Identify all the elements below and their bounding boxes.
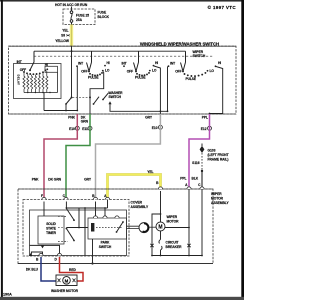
svg-text:RED: RED	[69, 268, 76, 272]
wire: fuse output (yellow)	[70, 25, 73, 47]
wiper motor assembly dashed box	[18, 189, 213, 264]
cam / gear linkage	[127, 223, 157, 233]
fuse block dashed box	[63, 9, 95, 25]
timer internal wires	[43, 202, 45, 217]
svg-text:DK GRN: DK GRN	[48, 178, 61, 182]
washer motor	[51, 275, 79, 293]
svg-text:YEL: YEL	[62, 29, 68, 33]
svg-text:GRY: GRY	[145, 116, 153, 120]
wire PPL run	[189, 114, 210, 187]
wire RED run	[60, 257, 84, 281]
svg-text:WINDSHIELD WIPER/WASHER SWITCH: WINDSHIELD WIPER/WASHER SWITCH	[140, 41, 219, 46]
svg-text:LO: LO	[210, 69, 215, 73]
resistors	[23, 71, 48, 93]
svg-text:G103: G103	[208, 149, 216, 153]
SW3 wiper mode switch	[122, 51, 159, 79]
circuit breaker	[159, 231, 182, 256]
page frame	[1, 0, 3, 298]
ground rail on assembly bottom	[18, 263, 213, 265]
wiper motor	[156, 215, 179, 231]
svg-text:PNK: PNK	[32, 178, 39, 182]
svg-text:YELLOW: YELLOW	[55, 39, 70, 43]
contact x mark	[187, 244, 190, 247]
SW2 wiper mode switch	[76, 51, 110, 79]
SW4 wiper mode switch	[168, 51, 222, 81]
svg-text:LO: LO	[152, 69, 157, 73]
svg-text:OFF: OFF	[175, 70, 181, 74]
wire: washer out arrow to other circuit	[110, 104, 168, 112]
fuse F25 symbol	[70, 9, 73, 25]
svg-text:SWITCH: SWITCH	[99, 245, 112, 249]
svg-text:TIMER: TIMER	[46, 231, 56, 235]
contact arc dots	[23, 69, 46, 75]
svg-text:GRY: GRY	[84, 178, 92, 182]
svg-text:WIPER: WIPER	[167, 215, 178, 219]
svg-text:ASSEMBLY: ASSEMBLY	[131, 205, 149, 209]
svg-text:WASHER MOTOR: WASHER MOTOR	[51, 289, 79, 293]
svg-text:SOLID: SOLID	[46, 222, 56, 226]
svg-text:LO: LO	[105, 69, 110, 73]
svg-text:PPL: PPL	[202, 116, 208, 120]
wire GRY run	[96, 114, 161, 197]
contact x mark	[150, 244, 153, 247]
svg-text:CIRCUIT: CIRCUIT	[166, 241, 179, 245]
windshield wiper/washer switch dashed box	[9, 46, 237, 114]
wire to park switch	[66, 208, 88, 228]
timer relay contact lower	[66, 228, 68, 230]
wire: motor A branch	[165, 189, 189, 256]
wire: feed stub into fuse block	[71, 7, 73, 10]
svg-text:INT: INT	[78, 61, 83, 65]
timer output wires with arrows	[30, 245, 60, 253]
washer switch contacts	[65, 91, 123, 111]
park switch box	[88, 218, 127, 239]
svg-text:MOTOR: MOTOR	[167, 220, 180, 224]
svg-text:FUSE 25: FUSE 25	[76, 13, 89, 17]
svg-text:INT: INT	[17, 60, 22, 64]
wire: motor bottom rail	[152, 255, 202, 257]
wire: HI4 contact to PPL exit	[210, 67, 223, 114]
rail corner junction dots	[151, 255, 153, 257]
svg-text:FRAME RAIL): FRAME RAIL)	[208, 158, 229, 162]
svg-text:E10: E10	[69, 127, 75, 131]
svg-text:COVER: COVER	[131, 201, 143, 205]
wire DK BLU run	[41, 257, 56, 281]
wire: feed into switch	[71, 46, 73, 97]
contact link dashed stubs from timer	[58, 216, 68, 241]
svg-text:25A: 25A	[76, 18, 83, 22]
svg-text:WASHER: WASHER	[109, 91, 124, 95]
svg-text:ASSEMBLY: ASSEMBLY	[211, 201, 229, 205]
park switch output	[92, 239, 94, 264]
svg-text:BLK: BLK	[192, 177, 199, 181]
svg-text:PNK: PNK	[68, 116, 75, 120]
svg-text:YEL: YEL	[147, 170, 153, 174]
svg-text:HI: HI	[218, 61, 221, 65]
svg-text:BREAKER: BREAKER	[166, 245, 183, 249]
svg-text:HI: HI	[107, 61, 110, 65]
wire: switch gang dashed link	[34, 55, 214, 57]
wire: INT2 contact to PNK exit	[76, 67, 78, 111]
svg-text:E12: E12	[201, 127, 207, 131]
svg-text:MOTOR: MOTOR	[211, 197, 224, 201]
svg-text:BLOCK: BLOCK	[98, 15, 110, 19]
wire: switch feed bus	[34, 50, 186, 52]
wire: HI3 contact down	[154, 66, 160, 114]
svg-text:M: M	[65, 278, 69, 283]
svg-text:PULSE: PULSE	[186, 77, 197, 81]
svg-text:SWITCH: SWITCH	[109, 95, 122, 99]
HI direct contact rect	[45, 66, 58, 72]
wiper motor feed	[160, 191, 162, 222]
park switch coil	[91, 223, 94, 232]
svg-text:190A: 190A	[3, 293, 12, 297]
svg-text:PULSE: PULSE	[135, 76, 146, 80]
svg-text:FUSE: FUSE	[98, 11, 107, 15]
svg-text:OFF: OFF	[127, 70, 133, 74]
SW1 delay switch box	[14, 51, 62, 110]
svg-text:INT: INT	[170, 61, 175, 65]
wire: INT4 contact down	[167, 67, 169, 112]
svg-text:INT: INT	[122, 61, 127, 65]
wire PNK run	[44, 114, 77, 197]
wire YEL run (motor feed)	[108, 175, 161, 198]
wire: LO2 contact to DK GRN exit	[90, 72, 104, 115]
svg-text:GRN: GRN	[81, 120, 89, 124]
ground G103	[192, 144, 228, 173]
park switch contact	[117, 222, 124, 232]
output wire	[43, 93, 45, 111]
solid state timer box	[38, 216, 64, 244]
svg-text:E10: E10	[152, 126, 158, 130]
svg-text:WIPER: WIPER	[211, 192, 222, 196]
svg-text:OFF: OFF	[81, 70, 87, 74]
svg-text:HI: HI	[155, 61, 158, 65]
timer inner solid box	[30, 210, 127, 256]
svg-text:E11: E11	[82, 127, 88, 131]
svg-text:OFF: OFF	[20, 68, 26, 72]
wire: sw1 output bus to PNK exit	[44, 110, 77, 112]
svg-text:M: M	[158, 225, 162, 231]
svg-text:PPL: PPL	[180, 177, 186, 181]
svg-text:S9: S9	[61, 34, 65, 38]
svg-text:DELAY: DELAY	[17, 75, 21, 86]
svg-text:© 1997 VTC: © 1997 VTC	[208, 4, 237, 10]
svg-text:DK BLU: DK BLU	[26, 268, 39, 272]
svg-text:(LEFT FRONT: (LEFT FRONT	[208, 153, 229, 157]
timer relay contact upper	[66, 209, 74, 221]
svg-text:S116: S116	[192, 161, 200, 165]
svg-text:STATE: STATE	[46, 227, 57, 231]
park switch connector bumps	[93, 216, 97, 218]
wire DK GRN run	[66, 114, 90, 197]
wire BLK run	[201, 171, 203, 187]
bottom bus	[24, 72, 58, 92]
cover assembly dashed box	[23, 200, 129, 257]
svg-text:PARK: PARK	[101, 241, 110, 245]
wire: motor C ground	[201, 189, 203, 256]
wiper arm	[30, 51, 34, 70]
svg-text:PULSE: PULSE	[88, 76, 99, 80]
